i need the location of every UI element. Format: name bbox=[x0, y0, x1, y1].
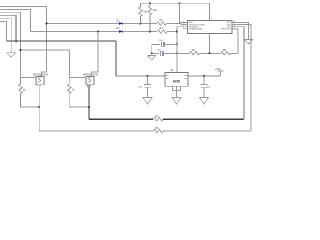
node Q2 emitter junction bbox=[88, 106, 90, 108]
wire U2 bottom pins bbox=[173, 86, 181, 97]
wire VSS to ground bbox=[232, 23, 249, 40]
node Q2 collector junction bbox=[97, 31, 99, 33]
wire Q2 collector from wire2 bbox=[92, 32, 99, 77]
wire GP4 column vertical to U2 bbox=[177, 27, 183, 73]
transistor Q2 bbox=[83, 74, 99, 87]
wire GP1 right down to dark net bbox=[232, 27, 244, 120]
svg-text:+12V: +12V bbox=[215, 67, 221, 71]
wire W4 dark from left edge down to dark bus bbox=[0, 15, 16, 41]
wire Q2 emitter dark down bbox=[88, 85, 90, 120]
node junction W4/dark bus bbox=[15, 40, 17, 42]
svg-text:MPS2N2222A: MPS2N2222A bbox=[33, 74, 49, 77]
wire2 net D2 segment a bbox=[31, 31, 119, 33]
wire1 net D1 segment a bbox=[47, 23, 119, 25]
wire W2 from left edge down to wire2 row bbox=[0, 9, 31, 31]
capacitor CA wire bbox=[152, 43, 177, 45]
wire W3 branch to block2 bbox=[21, 50, 70, 77]
wire supply rail y76 left part bbox=[116, 75, 165, 77]
ground GND4 U2 bbox=[172, 98, 181, 105]
wire2 segment c to GP4 column bbox=[167, 31, 177, 33]
node VDD drop top bbox=[179, 2, 181, 4]
node W1/wire1 junction bbox=[46, 23, 48, 25]
node C2 junction bbox=[203, 75, 205, 77]
wire cap node vertical bbox=[151, 44, 153, 53]
node capA/GP4 column bbox=[176, 43, 178, 45]
U1 left pin stubs bbox=[183, 23, 188, 29]
capacitor CB wire bbox=[152, 52, 177, 54]
resistor R10 on bottom wire bbox=[153, 127, 163, 133]
svg-text:MPS2N2222A: MPS2N2222A bbox=[83, 74, 99, 77]
ground GND3 caps bbox=[148, 53, 156, 60]
wire Q1 base bbox=[21, 76, 37, 78]
capacitor C2 bbox=[201, 76, 211, 98]
capacitor CA plates bbox=[159, 40, 164, 47]
node cap ground junction bbox=[151, 52, 153, 54]
transistor Q1 bbox=[33, 74, 49, 87]
wire W3 from left edge down to base column bbox=[0, 12, 21, 77]
wire dark bus horizontal y41 bbox=[6, 40, 116, 42]
svg-text:GP3/MCLR/Vpp: GP3/MCLR/Vpp bbox=[189, 29, 203, 31]
wire1 net D1 segment b bbox=[122, 23, 156, 25]
node U1 bottom pin junction bbox=[209, 52, 211, 54]
resistor R6 base pulldown Q2 bbox=[68, 77, 76, 107]
ground GND2 VSS bbox=[245, 40, 253, 45]
wire Q2 base bbox=[69, 76, 86, 78]
resistor R4 pullup right bbox=[148, 3, 157, 31]
wire R6 bottom to emitter bbox=[69, 106, 89, 108]
wire R5 bottom to emitter bbox=[21, 106, 40, 108]
capacitor C1 bbox=[139, 76, 152, 98]
power +12V bbox=[215, 67, 224, 76]
op IC U1 PIC body bbox=[187, 21, 232, 34]
wire W6 from left edge down to dark bus start bbox=[0, 21, 6, 41]
wire W5 from left edge down to ground bbox=[0, 18, 11, 53]
resistor R7 bbox=[190, 49, 200, 55]
diode D2 bbox=[117, 27, 123, 33]
wire bottom y131 bbox=[39, 130, 250, 132]
U1 bottom pin to R7R8 node bbox=[209, 33, 211, 53]
node wire2/GP4 column bbox=[176, 31, 178, 33]
resistor R8 bbox=[221, 49, 231, 55]
wire R7R8 row bbox=[177, 52, 238, 54]
capacitor CB plates bbox=[157, 49, 163, 55]
wire U1 top pin 2 bbox=[209, 3, 211, 20]
diode D1 bbox=[117, 19, 123, 25]
svg-text:GND: GND bbox=[173, 80, 181, 84]
node pullup R4col/wire2 junction bbox=[149, 31, 151, 33]
U1 right pin stubs bbox=[232, 23, 237, 29]
wire Q1 emitter down bbox=[38, 85, 40, 131]
node C1 junction bbox=[147, 75, 149, 77]
wire2 net D2 segment b bbox=[122, 31, 157, 33]
ground GND1 on W5 bbox=[7, 53, 15, 57]
resistor R5 base pulldown Q1 bbox=[19, 77, 27, 107]
ground GND6 C2 bbox=[200, 98, 209, 105]
wire VDD drop bbox=[180, 3, 188, 22]
supply rail top y3.2 bbox=[141, 2, 210, 4]
wire GP2 down to R8 bbox=[232, 29, 238, 54]
wire supply rail y76 right part bbox=[188, 75, 221, 77]
svg-text:GP2/T0CKI: GP2/T0CKI bbox=[221, 29, 231, 31]
wire dark bus vertical x116 bbox=[115, 41, 117, 76]
resistor R9 on dark net bbox=[153, 115, 163, 121]
wire dark net bottom y119 bbox=[89, 118, 244, 120]
node pullup2 top bbox=[149, 2, 151, 4]
ground GND5 C1 bbox=[143, 98, 152, 105]
resistor R3 pullup left bbox=[139, 3, 148, 24]
resistor R1 bbox=[157, 19, 167, 25]
node capB/GP4 column bbox=[176, 52, 178, 54]
node Q1 emitter junction bbox=[38, 106, 40, 108]
node W3 branch junction bbox=[20, 49, 22, 51]
wire1 to pin GP5 bbox=[167, 24, 188, 25]
wire GP0 right down to bottom wire bbox=[232, 25, 251, 131]
wire W1 from left edge to node at x46.5 bbox=[0, 6, 47, 76]
op regulator U2 bbox=[165, 69, 188, 86]
node pullup R3col/wire1 junction bbox=[140, 23, 142, 25]
resistor R2 bbox=[157, 27, 167, 33]
